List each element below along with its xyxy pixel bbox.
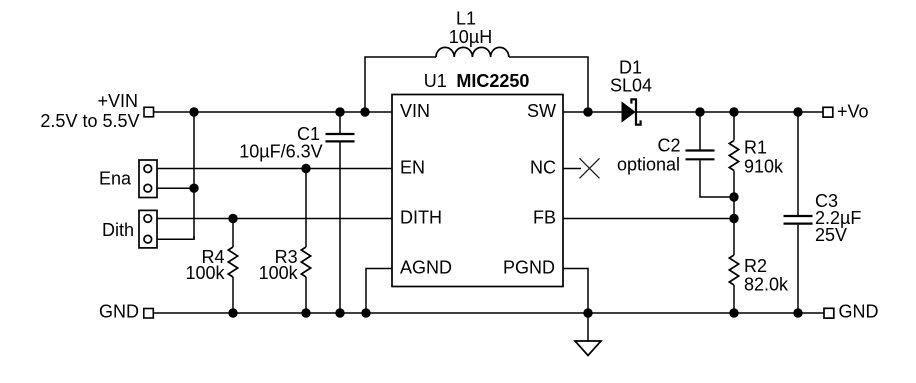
svg-text:R1: R1	[744, 137, 767, 157]
terminal +Vo	[823, 102, 869, 122]
capacitor C1 10uF/6.3V	[239, 112, 354, 313]
node junction C2 bottom / R1 bottom	[729, 192, 738, 201]
node junction R3 / GND	[301, 308, 310, 317]
capacitor C2 optional	[617, 112, 734, 197]
svg-text:Dith: Dith	[102, 220, 134, 240]
wire Ena pin1 to U1 EN pin	[157, 168, 392, 170]
terminal GND right	[824, 302, 879, 322]
node junction C1 / GND	[335, 308, 344, 317]
svg-text:GND: GND	[839, 302, 879, 322]
wire GND rail	[153, 312, 824, 314]
svg-text:+Vo: +Vo	[837, 102, 869, 122]
node junction SW / L1 right	[583, 107, 592, 116]
svg-text:SW: SW	[527, 101, 556, 121]
node junction C2 top / output rail	[695, 107, 704, 116]
svg-text:GND: GND	[99, 302, 139, 322]
svg-text:U1: U1	[424, 71, 447, 91]
svg-text:910k: 910k	[744, 156, 784, 176]
wire D1 cathode to +Vo terminal	[637, 111, 823, 113]
svg-text:D1: D1	[619, 57, 642, 77]
node junction AGND / GND	[361, 308, 370, 317]
svg-text:NC: NC	[530, 157, 556, 177]
svg-text:25V: 25V	[815, 225, 847, 245]
node junction R3 / EN wire	[301, 164, 310, 173]
wire +VIN rail to U1 VIN pin	[154, 111, 393, 113]
svg-text:DITH: DITH	[400, 208, 442, 228]
svg-text:Ena: Ena	[99, 169, 132, 189]
resistor R4 100k	[185, 219, 237, 314]
wire Dith pin2 to branch	[157, 236, 194, 239]
resistor R1 910k	[729, 112, 784, 219]
svg-text:SL04: SL04	[610, 75, 652, 95]
svg-text:10µH: 10µH	[449, 27, 492, 47]
ground symbol	[575, 313, 601, 356]
svg-text:EN: EN	[400, 157, 425, 177]
pin NC stub and no-connect cross	[563, 158, 600, 178]
node junction R1 top / output rail	[729, 107, 738, 116]
terminal +VIN	[40, 91, 153, 131]
node junction R4 / DITH wire	[228, 214, 237, 223]
svg-text:100k: 100k	[259, 263, 299, 283]
node junction Ena pin2	[189, 184, 198, 193]
wire FB pin to divider	[563, 218, 734, 220]
svg-text:L1: L1	[456, 9, 476, 29]
inductor L1 10uH	[365, 9, 588, 113]
resistor R2 82.0k	[729, 219, 789, 314]
node junction PGND / GND	[583, 308, 592, 317]
svg-text:optional: optional	[617, 154, 680, 174]
node junction VIN rail / Ena-Dith branch	[189, 107, 198, 116]
svg-text:PGND: PGND	[503, 258, 555, 278]
connector Dith	[102, 210, 157, 248]
wire AGND pin to ground rail	[366, 269, 392, 314]
resistor R3 100k	[259, 169, 311, 314]
svg-text:100k: 100k	[185, 263, 225, 283]
capacitor C3 2.2uF 25V	[784, 112, 862, 313]
svg-text:FB: FB	[533, 208, 556, 228]
svg-text:R2: R2	[744, 256, 767, 276]
wire PGND pin to ground rail	[563, 269, 588, 314]
connector Ena	[99, 160, 157, 198]
svg-text:MIC2250: MIC2250	[456, 71, 529, 91]
node junction C1 top / VIN rail	[335, 107, 344, 116]
diode D1 SL04 schottky	[610, 57, 652, 124]
node junction FB / divider	[729, 214, 738, 223]
wire Ena pin2 to branch	[157, 187, 194, 189]
node junction C3 / GND	[793, 308, 802, 317]
node junction C3 top / output rail	[793, 107, 802, 116]
wire Dith pin1 to U1 DITH pin	[157, 218, 392, 220]
op-amp U1 MIC2250 IC body	[392, 71, 563, 287]
node junction R4 / GND	[228, 308, 237, 317]
svg-text:AGND: AGND	[400, 258, 452, 278]
svg-text:10µF/6.3V: 10µF/6.3V	[239, 142, 322, 162]
svg-text:C2: C2	[657, 135, 680, 155]
svg-text:82.0k: 82.0k	[744, 274, 789, 294]
wire SW pin to D1 anode	[563, 111, 623, 113]
svg-text:2.5V to 5.5V: 2.5V to 5.5V	[40, 111, 139, 131]
terminal GND left	[99, 302, 153, 322]
wire vertical Ena/Dith branch	[193, 112, 195, 239]
node junction L1 left / VIN rail	[360, 107, 369, 116]
svg-text:VIN: VIN	[400, 101, 430, 121]
svg-text:+VIN: +VIN	[97, 91, 138, 111]
node junction R2 / GND	[729, 308, 738, 317]
